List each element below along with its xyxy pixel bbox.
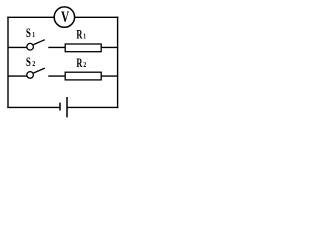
switch S2 xyxy=(27,68,45,78)
svg-text:2: 2 xyxy=(32,59,35,68)
wire top-right xyxy=(74,16,118,18)
resistor R2 xyxy=(65,72,101,80)
wire branch1 left xyxy=(8,46,27,48)
wire right xyxy=(117,17,119,109)
wire branch2 left xyxy=(8,75,27,77)
wire bottom-right xyxy=(67,106,118,108)
wire R2 right xyxy=(101,75,117,77)
svg-text:V: V xyxy=(61,9,70,26)
svg-text:S: S xyxy=(26,26,31,40)
resistor R1 xyxy=(65,44,101,52)
label R2 xyxy=(76,56,86,70)
voltmeter V xyxy=(54,7,74,27)
svg-text:1: 1 xyxy=(83,31,86,40)
svg-text:R: R xyxy=(76,27,82,41)
wire R1 right xyxy=(101,46,117,48)
switch S1 xyxy=(27,40,45,50)
wire S1 to R1 xyxy=(48,46,66,48)
battery B1 xyxy=(60,97,67,117)
label S1 xyxy=(26,26,35,40)
svg-text:2: 2 xyxy=(83,60,86,69)
label S2 xyxy=(26,55,35,69)
label R1 xyxy=(76,27,86,41)
wire left xyxy=(7,17,9,109)
wire S2 to R2 xyxy=(48,75,66,77)
svg-text:S: S xyxy=(26,55,31,69)
svg-text:1: 1 xyxy=(32,30,35,39)
wire top-left xyxy=(7,16,55,18)
wire bottom-left xyxy=(7,106,59,108)
svg-text:R: R xyxy=(76,56,82,70)
